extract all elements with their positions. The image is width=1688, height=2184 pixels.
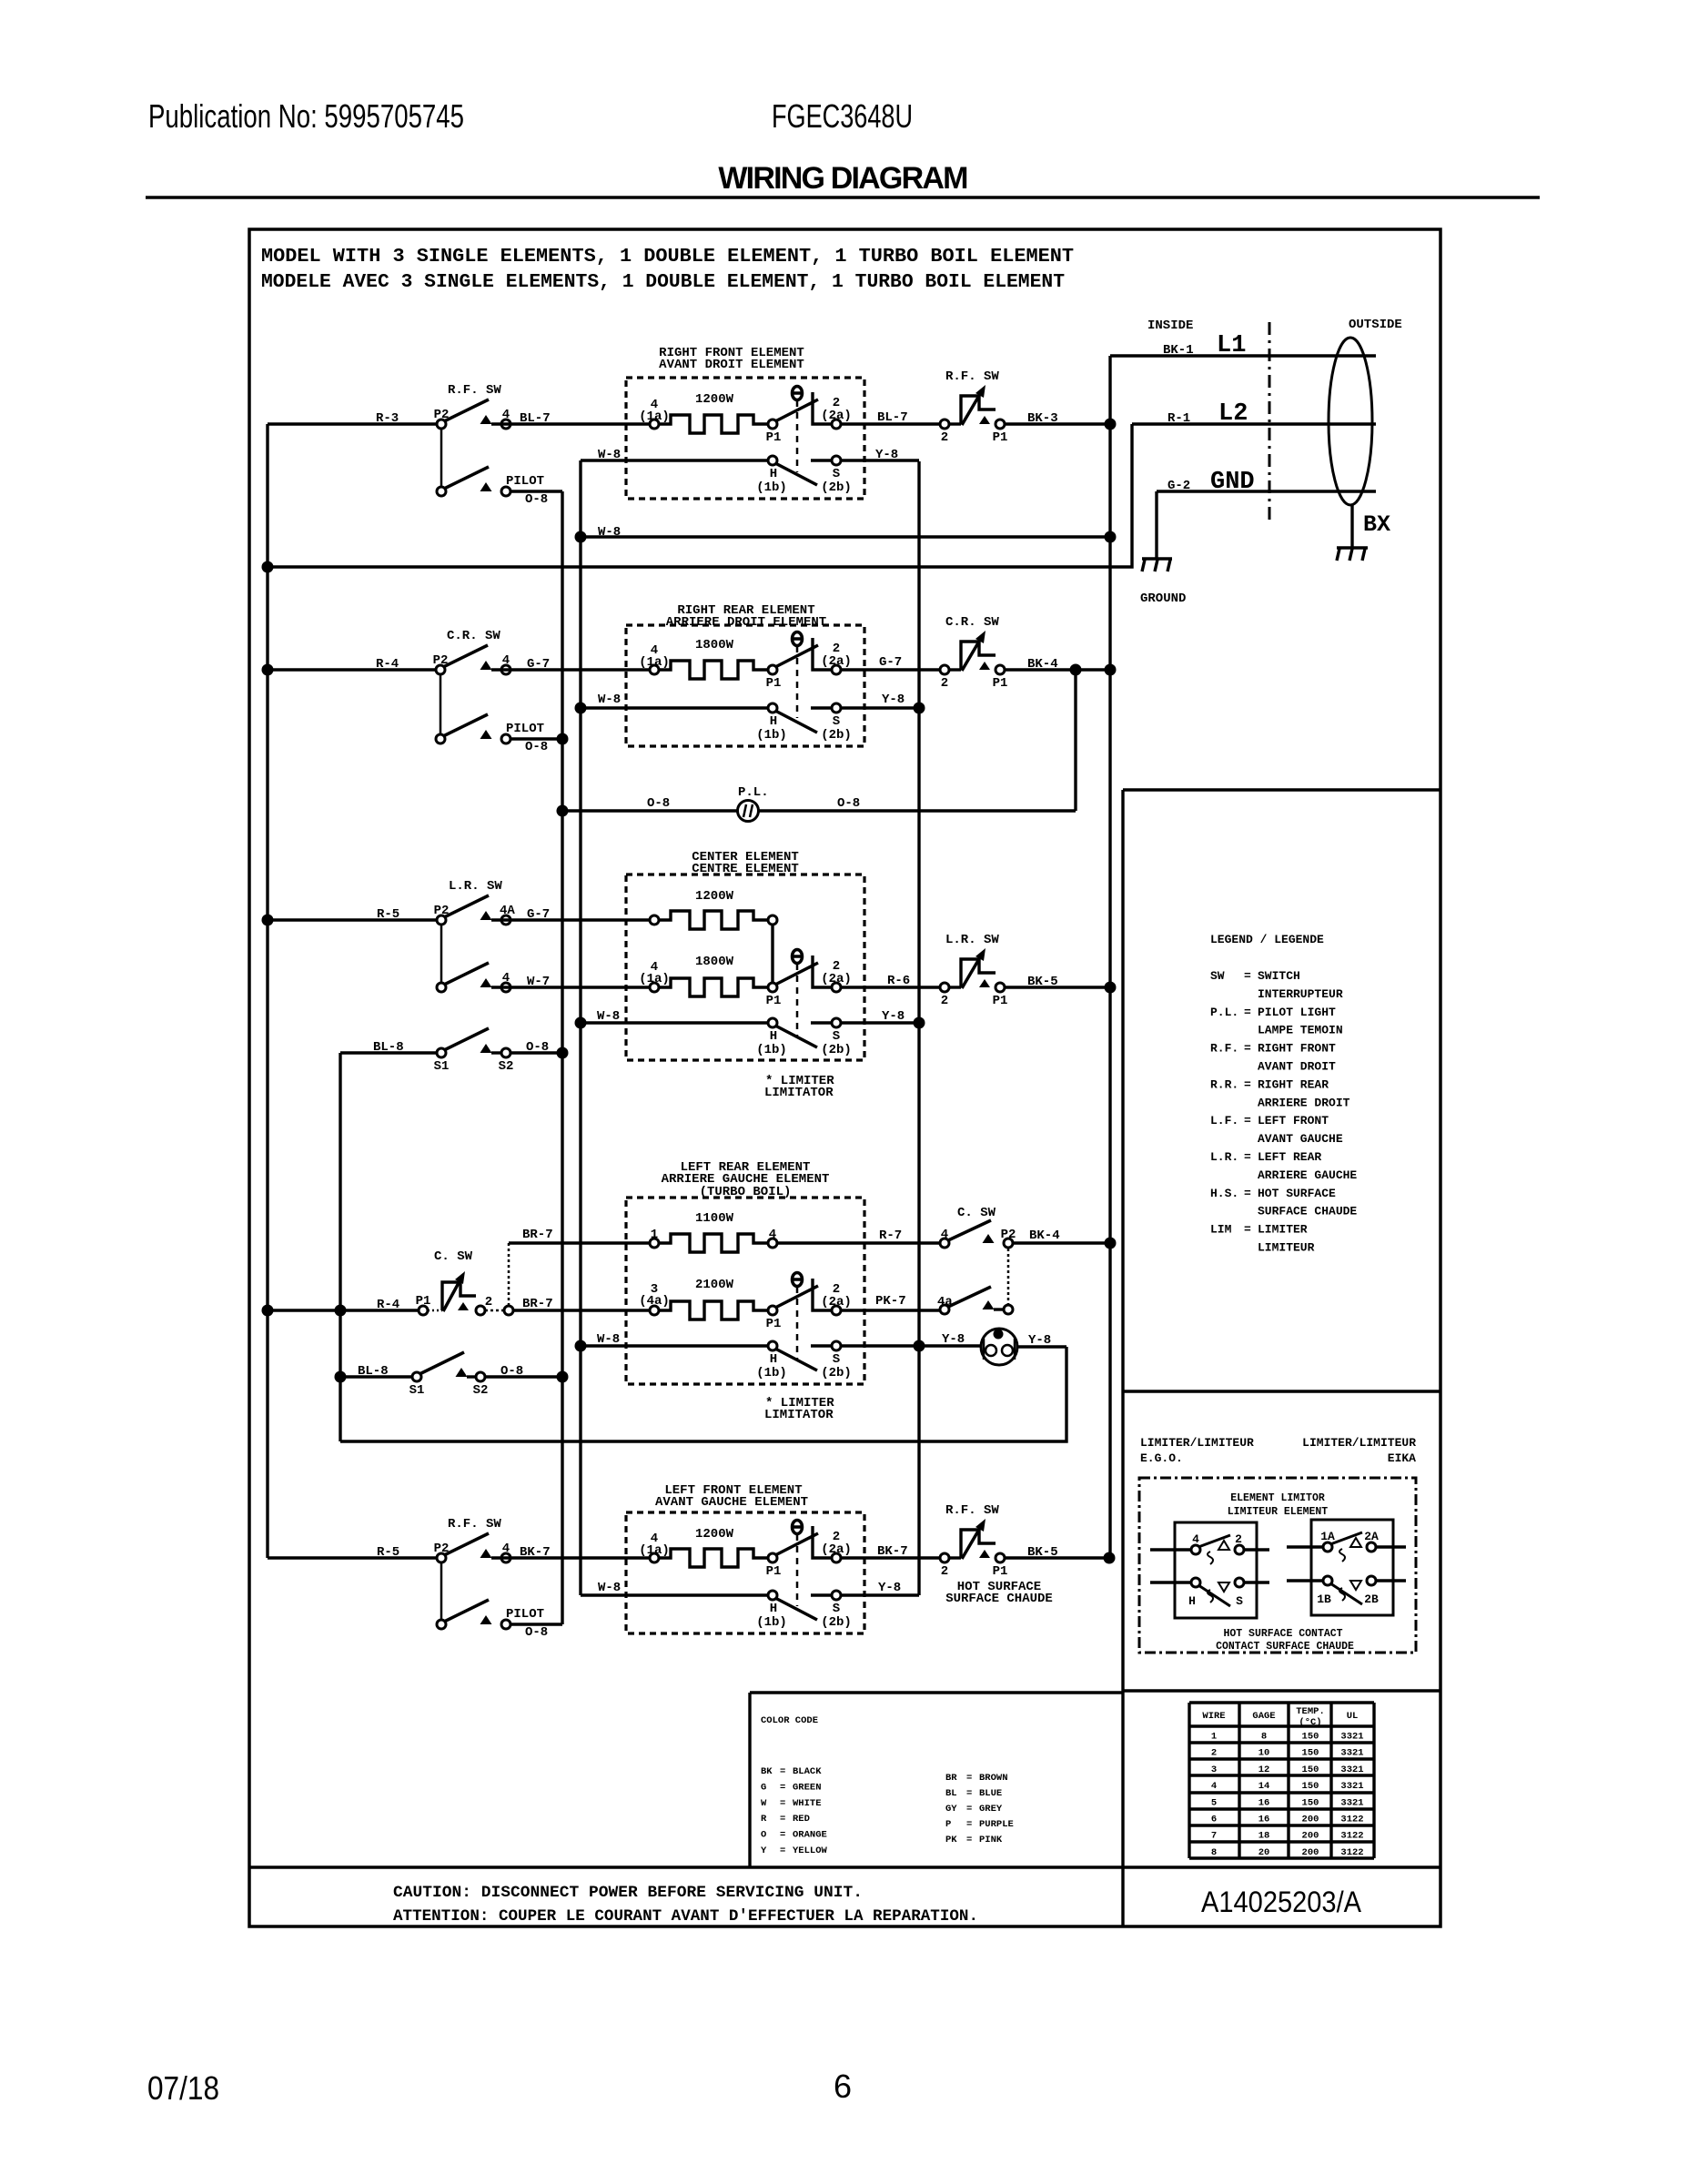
svg-text:4: 4 <box>502 408 510 422</box>
node L1 supply line BK-1 <box>1110 354 1376 357</box>
svg-text:R-4: R-4 <box>376 657 399 672</box>
svg-text:(2a): (2a) <box>821 972 852 986</box>
svg-text:LIMITATOR: LIMITATOR <box>764 1408 834 1422</box>
svg-text:(TURBO BOIL): (TURBO BOIL) <box>700 1185 792 1199</box>
svg-text:2: 2 <box>941 676 948 691</box>
wire pilot light riser (x=1182) <box>1074 670 1076 811</box>
svg-text:=: = <box>780 1798 785 1809</box>
wire BL-7 out of element row1 <box>841 422 940 425</box>
svg-text:=: = <box>780 1814 785 1825</box>
svg-text:4A: 4A <box>500 904 515 918</box>
svg-text:=: = <box>780 1766 785 1777</box>
wire left L2 feeder bus (vertical x=294) <box>266 424 268 1558</box>
wire R-5 (row 3 feed) <box>268 918 437 921</box>
title underline rule <box>146 196 1540 199</box>
svg-text:UL: UL <box>1347 1711 1359 1722</box>
svg-text:150: 150 <box>1302 1764 1319 1775</box>
switch limiter S1/S2 (upper, BL-8 to O-8) <box>340 1051 437 1054</box>
svg-text:(2a): (2a) <box>821 1295 852 1309</box>
wire R-4 (row 4 feed) <box>268 1309 419 1311</box>
switch contacts H/S (row2 element) <box>775 711 817 733</box>
svg-text:C. SW: C. SW <box>434 1249 473 1264</box>
wire BK-3 to L1 bus <box>1005 422 1110 425</box>
svg-text:3321: 3321 <box>1340 1764 1363 1775</box>
svg-text:Y-8: Y-8 <box>1028 1333 1051 1348</box>
svg-text:3122: 3122 <box>1340 1847 1363 1858</box>
svg-text:4: 4 <box>769 1228 776 1242</box>
svg-text:BLUE: BLUE <box>979 1788 1002 1799</box>
svg-text:(°C): (°C) <box>1299 1717 1321 1728</box>
svg-text:(1b): (1b) <box>756 1366 787 1380</box>
element block: LEFT FRONT ELEMENT 1200W <box>626 1512 864 1633</box>
svg-text:PURPLE: PURPLE <box>979 1819 1014 1830</box>
svg-text:1200W: 1200W <box>695 392 734 407</box>
svg-text:GAGE: GAGE <box>1252 1711 1275 1722</box>
svg-text:W-8: W-8 <box>598 448 621 462</box>
switch contacts P1/2a (row3 element) <box>768 983 777 992</box>
svg-text:1200W: 1200W <box>695 1527 734 1542</box>
resistor 1200W right front <box>650 420 659 429</box>
svg-text:WHITE: WHITE <box>793 1798 822 1809</box>
svg-text:2: 2 <box>941 430 948 445</box>
svg-text:(2a): (2a) <box>821 654 852 669</box>
svg-text:2: 2 <box>941 994 948 1008</box>
svg-text:S1: S1 <box>434 1059 450 1074</box>
svg-text:L2: L2 <box>1218 400 1248 428</box>
svg-text:BK-7: BK-7 <box>877 1544 908 1559</box>
switch contacts P1/2a (row4 element) <box>768 1306 777 1315</box>
svg-text:S: S <box>1236 1594 1243 1608</box>
svg-text:CAUTION: DISCONNECT POWER BEF: CAUTION: DISCONNECT POWER BEFORE SERVICI… <box>393 1884 863 1902</box>
svg-text:P.L.: P.L. <box>738 785 769 800</box>
wire W-8 row3 <box>581 1021 769 1024</box>
svg-text:R-5: R-5 <box>377 907 399 922</box>
svg-text:12: 12 <box>1258 1764 1270 1775</box>
svg-text:1100W: 1100W <box>695 1211 734 1226</box>
svg-text:H.S.: H.S. <box>1210 1187 1238 1200</box>
svg-text:(1b): (1b) <box>756 728 787 743</box>
wire R-6 out of element row3 <box>841 986 940 988</box>
svg-text:H: H <box>770 714 777 729</box>
node GND supply line G-2 <box>1157 490 1376 492</box>
wire W-8 row2 <box>581 706 769 709</box>
svg-text:P1: P1 <box>766 994 782 1008</box>
svg-text:LIMITER: LIMITER <box>1258 1223 1308 1237</box>
svg-text:BR-7: BR-7 <box>522 1228 553 1242</box>
svg-text:BL-8: BL-8 <box>373 1040 404 1055</box>
resistor 1800W right rear <box>650 665 659 674</box>
limiter switch detail E.G.O. (4/2, H/S) <box>1175 1522 1257 1618</box>
svg-text:P1: P1 <box>766 1564 782 1579</box>
wire Y-8 row3 <box>841 1021 919 1024</box>
svg-text:BR: BR <box>945 1773 957 1784</box>
svg-text:H: H <box>770 1352 777 1367</box>
svg-text:1B: 1B <box>1317 1592 1331 1606</box>
wire PK-7 out of element row4 <box>841 1309 940 1311</box>
svg-text:3321: 3321 <box>1340 1732 1363 1743</box>
svg-text:R.R.: R.R. <box>1210 1077 1238 1091</box>
svg-text:LEFT FRONT: LEFT FRONT <box>1258 1114 1329 1127</box>
svg-text:GROUND: GROUND <box>1140 591 1186 606</box>
svg-text:R-3: R-3 <box>376 411 399 426</box>
svg-text:G-7: G-7 <box>879 655 902 670</box>
bottom strip divider <box>249 1865 1440 1868</box>
svg-text:W-8: W-8 <box>598 525 621 540</box>
svg-text:4: 4 <box>502 1542 510 1556</box>
svg-text:LIMITER/LIMITEUR: LIMITER/LIMITEUR <box>1140 1436 1254 1450</box>
svg-text:=: = <box>1244 1150 1251 1164</box>
wire BL-8 riser (x=374) <box>339 1053 341 1441</box>
svg-text:3321: 3321 <box>1340 1748 1363 1759</box>
svg-text:=: = <box>780 1830 785 1841</box>
svg-text:EIKA: EIKA <box>1388 1451 1416 1465</box>
element block: RIGHT FRONT ELEMENT 1200W <box>626 378 864 499</box>
svg-text:W-8: W-8 <box>597 1009 620 1024</box>
svg-text:PK-7: PK-7 <box>875 1294 906 1309</box>
svg-text:2A: 2A <box>1364 1530 1379 1543</box>
svg-text:SURFACE CHAUDE: SURFACE CHAUDE <box>945 1592 1053 1606</box>
svg-text:O-8: O-8 <box>525 740 548 754</box>
svg-text:Y-8: Y-8 <box>875 448 898 462</box>
svg-text:(2a): (2a) <box>821 409 852 423</box>
wire BK-7 row5 into element <box>491 1556 650 1559</box>
svg-text:HOT SURFACE CONTACT: HOT SURFACE CONTACT <box>1223 1628 1342 1640</box>
wire BK-7 out of element row5 <box>841 1556 940 1559</box>
pilot contact row 1 (PILOT / O-8) <box>480 482 492 491</box>
svg-text:ELEMENT LIMITOR: ELEMENT LIMITOR <box>1230 1492 1325 1504</box>
svg-text:(1b): (1b) <box>756 1615 787 1630</box>
svg-text:=: = <box>966 1819 972 1830</box>
svg-text:BK-4: BK-4 <box>1029 1228 1060 1243</box>
svg-text:L.R. SW: L.R. SW <box>449 879 502 894</box>
wire Y-8 bus (vertical x=1010) <box>917 461 920 1595</box>
svg-text:=: = <box>966 1788 972 1799</box>
svg-text:07/18: 07/18 <box>147 2069 219 2107</box>
resistor 1800W center <box>650 983 659 992</box>
svg-text:S: S <box>833 1352 840 1367</box>
switch contacts H/S (row5 element) <box>775 1598 817 1620</box>
svg-text:S1: S1 <box>409 1383 425 1398</box>
svg-text:P1: P1 <box>766 676 782 691</box>
svg-text:RED: RED <box>793 1814 810 1825</box>
svg-text:8: 8 <box>1261 1732 1267 1743</box>
diagram outer border frame <box>249 229 1440 1926</box>
svg-text:2: 2 <box>1211 1748 1217 1759</box>
svg-text:W-8: W-8 <box>598 693 621 707</box>
svg-text:6: 6 <box>834 2068 852 2105</box>
wire L2 riser (vertical x=1244) and L2 trunk to left bus <box>268 424 1132 567</box>
wire G-7 row3 into element (1200W top row) <box>491 918 650 921</box>
svg-text:INSIDE: INSIDE <box>1147 318 1193 333</box>
switch contacts H/S (row3 element) <box>775 1026 817 1047</box>
svg-text:ARRIERE DROIT ELEMENT: ARRIERE DROIT ELEMENT <box>666 615 826 630</box>
element block: LEFT REAR ELEMENT (TURBO BOIL) 1100W + 2100W <box>626 1198 864 1384</box>
svg-text:(2b): (2b) <box>821 728 852 743</box>
svg-text:(2b): (2b) <box>821 1366 852 1380</box>
svg-text:H: H <box>770 1029 777 1044</box>
svg-text:PINK: PINK <box>979 1835 1003 1845</box>
svg-text:2: 2 <box>485 1295 492 1309</box>
wire O-8 pilot light row <box>562 809 1076 812</box>
svg-text:P: P <box>945 1819 951 1830</box>
svg-text:O-8: O-8 <box>837 796 860 811</box>
wire Y-8 row4 to hot surface indicator <box>841 1344 981 1347</box>
svg-text:G: G <box>761 1782 766 1793</box>
svg-text:PILOT: PILOT <box>506 474 544 489</box>
svg-text:=: = <box>1244 969 1251 983</box>
wire W-8 row1 <box>581 459 769 461</box>
svg-text:ORANGE: ORANGE <box>793 1830 827 1841</box>
svg-text:2: 2 <box>1235 1532 1242 1546</box>
wire BK-5 to L1 bus (row3) <box>1005 986 1110 988</box>
supply cable ellipse BX <box>1329 338 1372 505</box>
svg-text:LEFT REAR: LEFT REAR <box>1258 1150 1321 1164</box>
svg-text:GY: GY <box>945 1804 957 1815</box>
svg-text:=: = <box>780 1782 785 1793</box>
svg-text:P1: P1 <box>993 1564 1008 1579</box>
wire W-8 row5 <box>581 1593 769 1596</box>
svg-text:200: 200 <box>1302 1831 1319 1842</box>
svg-text:=: = <box>1244 1223 1251 1237</box>
wire BK-4 to L1 bus with pilot-light tap <box>1005 668 1110 671</box>
svg-text:INTERRUPTEUR: INTERRUPTEUR <box>1258 987 1343 1001</box>
wire Y-8 row2 <box>841 706 919 709</box>
svg-text:PILOT: PILOT <box>506 722 544 736</box>
svg-text:LEGEND / LEGENDE: LEGEND / LEGENDE <box>1210 933 1324 946</box>
svg-text:SW: SW <box>1210 969 1225 983</box>
wire hot surface return loop <box>340 1347 1066 1441</box>
svg-text:S: S <box>833 1602 840 1616</box>
svg-text:2B: 2B <box>1364 1592 1379 1606</box>
svg-text:150: 150 <box>1302 1748 1319 1759</box>
svg-text:FGEC3648U: FGEC3648U <box>772 97 913 135</box>
wire G-7 row2 into element <box>491 668 650 671</box>
svg-text:Y: Y <box>761 1845 767 1856</box>
svg-text:P1: P1 <box>766 430 782 445</box>
svg-text:R-6: R-6 <box>887 974 910 988</box>
svg-text:LAMPE TEMOIN: LAMPE TEMOIN <box>1258 1024 1343 1037</box>
switch contacts P1/2a (row5 element) <box>768 1553 777 1562</box>
wire R-3 (row 1 feed) <box>268 422 437 425</box>
svg-text:150: 150 <box>1302 1732 1319 1743</box>
svg-text:SWITCH: SWITCH <box>1258 969 1300 983</box>
svg-text:Publication No: 5995705745: Publication No: 5995705745 <box>148 97 464 135</box>
svg-text:1: 1 <box>1211 1732 1217 1743</box>
svg-text:RIGHT REAR: RIGHT REAR <box>1258 1077 1329 1091</box>
svg-text:W: W <box>761 1798 767 1809</box>
wire R-4 (row 2 feed) <box>268 668 436 671</box>
svg-text:1800W: 1800W <box>695 638 734 652</box>
svg-text:S: S <box>833 1029 840 1044</box>
svg-text:(2b): (2b) <box>821 480 852 495</box>
svg-text:L.F.: L.F. <box>1210 1114 1238 1127</box>
svg-text:G-2: G-2 <box>1167 479 1190 493</box>
svg-text:=: = <box>780 1845 785 1856</box>
svg-text:3321: 3321 <box>1340 1781 1363 1792</box>
svg-text:(1b): (1b) <box>756 1043 787 1057</box>
element block: CENTER ELEMENT 1200W + 1800W <box>626 875 864 1060</box>
wire BL-7 row1 into element <box>491 422 650 425</box>
svg-text:10: 10 <box>1258 1748 1270 1759</box>
wire L1 bus (vertical x=1220) <box>1108 356 1111 1558</box>
svg-text:LIM: LIM <box>1210 1223 1232 1237</box>
wire dotted P2 link down to 4a contact <box>1007 1249 1010 1304</box>
svg-text:=: = <box>966 1804 972 1815</box>
svg-text:200: 200 <box>1302 1815 1319 1825</box>
right panel borders (legend / limiter / table column) <box>1121 790 1124 1926</box>
svg-text:R-7: R-7 <box>879 1228 902 1243</box>
svg-text:OUTSIDE: OUTSIDE <box>1349 318 1402 332</box>
inside/outside partition dash-dot line <box>1269 322 1271 522</box>
svg-text:CENTRE ELEMENT: CENTRE ELEMENT <box>692 862 799 876</box>
wire BK-5 to L1 bus (row5) <box>1005 1556 1110 1559</box>
wire Y-8 row1 <box>841 459 919 461</box>
limiter switch detail EIKA (1A/2A, 1B/2B) <box>1311 1520 1393 1615</box>
svg-text:PILOT LIGHT: PILOT LIGHT <box>1258 1006 1336 1019</box>
junction dots on left feeder bus <box>262 561 274 573</box>
svg-text:P1: P1 <box>993 676 1008 691</box>
svg-text:BL-8: BL-8 <box>358 1364 389 1379</box>
svg-text:R.F. SW: R.F. SW <box>945 369 999 384</box>
svg-text:16: 16 <box>1258 1797 1270 1808</box>
resistor 1200W left front <box>650 1553 659 1562</box>
svg-text:P1: P1 <box>993 430 1008 445</box>
wire Y-8 row5 <box>841 1593 919 1596</box>
svg-text:4: 4 <box>1211 1781 1217 1792</box>
svg-text:R.F. SW: R.F. SW <box>448 1517 501 1532</box>
svg-text:HOT SURFACE: HOT SURFACE <box>1258 1187 1336 1200</box>
svg-text:L.R. SW: L.R. SW <box>945 933 999 947</box>
svg-text:=: = <box>966 1773 972 1784</box>
svg-text:18: 18 <box>1258 1831 1270 1842</box>
svg-text:PK: PK <box>945 1835 957 1845</box>
wire R-7 out of element <box>777 1241 940 1244</box>
svg-text:=: = <box>966 1835 972 1845</box>
svg-text:LIMITATOR: LIMITATOR <box>764 1086 834 1100</box>
svg-text:BK: BK <box>761 1766 773 1777</box>
svg-text:WIRING DIAGRAM: WIRING DIAGRAM <box>718 161 967 196</box>
wire BR-7 upper (1100W feed) <box>509 1241 650 1244</box>
svg-text:L1: L1 <box>1217 332 1246 359</box>
wire R-5 (row 5 feed) <box>268 1556 437 1559</box>
svg-text:ARRIERE GAUCHE: ARRIERE GAUCHE <box>1258 1168 1357 1182</box>
svg-text:R.F.: R.F. <box>1210 1042 1238 1056</box>
svg-text:C.R. SW: C.R. SW <box>447 629 500 643</box>
svg-text:AVANT GAUCHE ELEMENT: AVANT GAUCHE ELEMENT <box>655 1495 808 1510</box>
switch contacts P1/2a (row2 element) <box>768 665 777 674</box>
svg-text:AVANT DROIT ELEMENT: AVANT DROIT ELEMENT <box>659 358 804 372</box>
svg-text:=: = <box>1244 1187 1251 1200</box>
svg-text:R.F. SW: R.F. SW <box>448 383 501 398</box>
svg-text:RIGHT FRONT: RIGHT FRONT <box>1258 1042 1336 1056</box>
wire BR-7 lower (2100W feed) <box>513 1309 650 1311</box>
svg-text:1800W: 1800W <box>695 955 734 969</box>
element block: RIGHT REAR ELEMENT 1800W <box>626 625 864 746</box>
svg-text:=: = <box>1244 1077 1251 1091</box>
svg-text:(1b): (1b) <box>756 480 787 495</box>
svg-text:3: 3 <box>1211 1764 1217 1775</box>
svg-text:Y-8: Y-8 <box>942 1332 965 1347</box>
svg-text:LIMITEUR: LIMITEUR <box>1258 1241 1315 1255</box>
svg-text:=: = <box>1244 1006 1251 1019</box>
wire O-8 bus (vertical x=618) <box>561 491 563 1624</box>
element limitor dash-dot box <box>1139 1478 1416 1653</box>
wire GND drop leg <box>1155 491 1157 559</box>
svg-text:L.R.: L.R. <box>1210 1150 1238 1164</box>
svg-text:GREY: GREY <box>979 1804 1003 1815</box>
svg-text:WIRE: WIRE <box>1202 1711 1225 1722</box>
svg-text:W-8: W-8 <box>598 1581 621 1595</box>
svg-text:O-8: O-8 <box>647 796 670 811</box>
svg-text:(2b): (2b) <box>821 1615 852 1630</box>
svg-text:Y-8: Y-8 <box>882 693 905 707</box>
pilot contact row 2 (PILOT / O-8) <box>480 730 492 739</box>
junction dots row1 <box>1105 419 1117 430</box>
svg-text:BX: BX <box>1363 511 1390 538</box>
svg-text:O: O <box>761 1830 766 1841</box>
switch contacts H/S (row1 element) <box>775 463 817 485</box>
svg-text:3122: 3122 <box>1340 1831 1363 1842</box>
ground symbol GROUND (inside) <box>1142 557 1172 560</box>
resistor 2100W turbo boil <box>650 1306 659 1315</box>
svg-text:(2a): (2a) <box>821 1542 852 1557</box>
svg-text:COLOR CODE: COLOR CODE <box>761 1715 818 1726</box>
svg-text:H: H <box>770 1602 777 1616</box>
color code box <box>750 1691 1123 1694</box>
node L2 supply line R-1 <box>1132 422 1376 425</box>
switch contacts H/S (row4 element) <box>775 1349 817 1370</box>
svg-text:SURFACE CHAUDE: SURFACE CHAUDE <box>1258 1205 1357 1218</box>
svg-text:LIMITEUR ELEMENT: LIMITEUR ELEMENT <box>1228 1506 1329 1518</box>
svg-text:P1: P1 <box>993 994 1008 1008</box>
svg-text:20: 20 <box>1258 1847 1270 1858</box>
svg-text:4: 4 <box>502 653 510 668</box>
svg-text:8: 8 <box>1211 1847 1217 1858</box>
svg-text:=: = <box>1244 1114 1251 1127</box>
svg-text:Y-8: Y-8 <box>882 1009 905 1024</box>
svg-text:BLACK: BLACK <box>793 1766 822 1777</box>
svg-text:6: 6 <box>1211 1815 1217 1825</box>
svg-text:R-4: R-4 <box>377 1298 399 1312</box>
wire W-8 bus (vertical x=638) <box>579 460 581 1595</box>
svg-text:C.R. SW: C.R. SW <box>945 615 999 630</box>
svg-text:2: 2 <box>941 1564 948 1579</box>
svg-text:ARRIERE DROIT: ARRIERE DROIT <box>1258 1096 1350 1109</box>
svg-text:CONTACT SURFACE CHAUDE: CONTACT SURFACE CHAUDE <box>1216 1641 1354 1653</box>
svg-text:S: S <box>833 467 840 481</box>
svg-text:W-8: W-8 <box>597 1332 620 1347</box>
svg-text:MODEL WITH 3 SINGLE ELEMENTS,: MODEL WITH 3 SINGLE ELEMENTS, 1 DOUBLE E… <box>261 246 1074 268</box>
wire W-8 trunk (y=590) <box>581 535 1110 538</box>
svg-text:MODELE AVEC 3 SINGLE ELEMENTS,: MODELE AVEC 3 SINGLE ELEMENTS, 1 DOUBLE … <box>261 271 1065 293</box>
svg-text:7: 7 <box>1211 1831 1217 1842</box>
svg-text:150: 150 <box>1302 1781 1319 1792</box>
svg-text:AVANT DROIT: AVANT DROIT <box>1258 1060 1336 1074</box>
wire link 1200W output down to P1 <box>771 925 773 983</box>
svg-text:C. SW: C. SW <box>957 1206 996 1220</box>
svg-text:14: 14 <box>1258 1781 1270 1792</box>
svg-text:200: 200 <box>1302 1847 1319 1858</box>
wire BR-7 dotted riser to 1100W row <box>508 1243 510 1305</box>
indicator hot surface (H.S.) <box>1017 1345 1066 1348</box>
svg-text:A14025203/A: A14025203/A <box>1201 1886 1362 1918</box>
svg-text:O-8: O-8 <box>525 492 548 507</box>
svg-text:16: 16 <box>1258 1815 1270 1825</box>
svg-text:5: 5 <box>1211 1797 1217 1808</box>
svg-text:BL: BL <box>945 1788 957 1799</box>
wire W-8 row4 <box>581 1344 769 1347</box>
wire G-7 out of element row2 <box>841 668 940 671</box>
